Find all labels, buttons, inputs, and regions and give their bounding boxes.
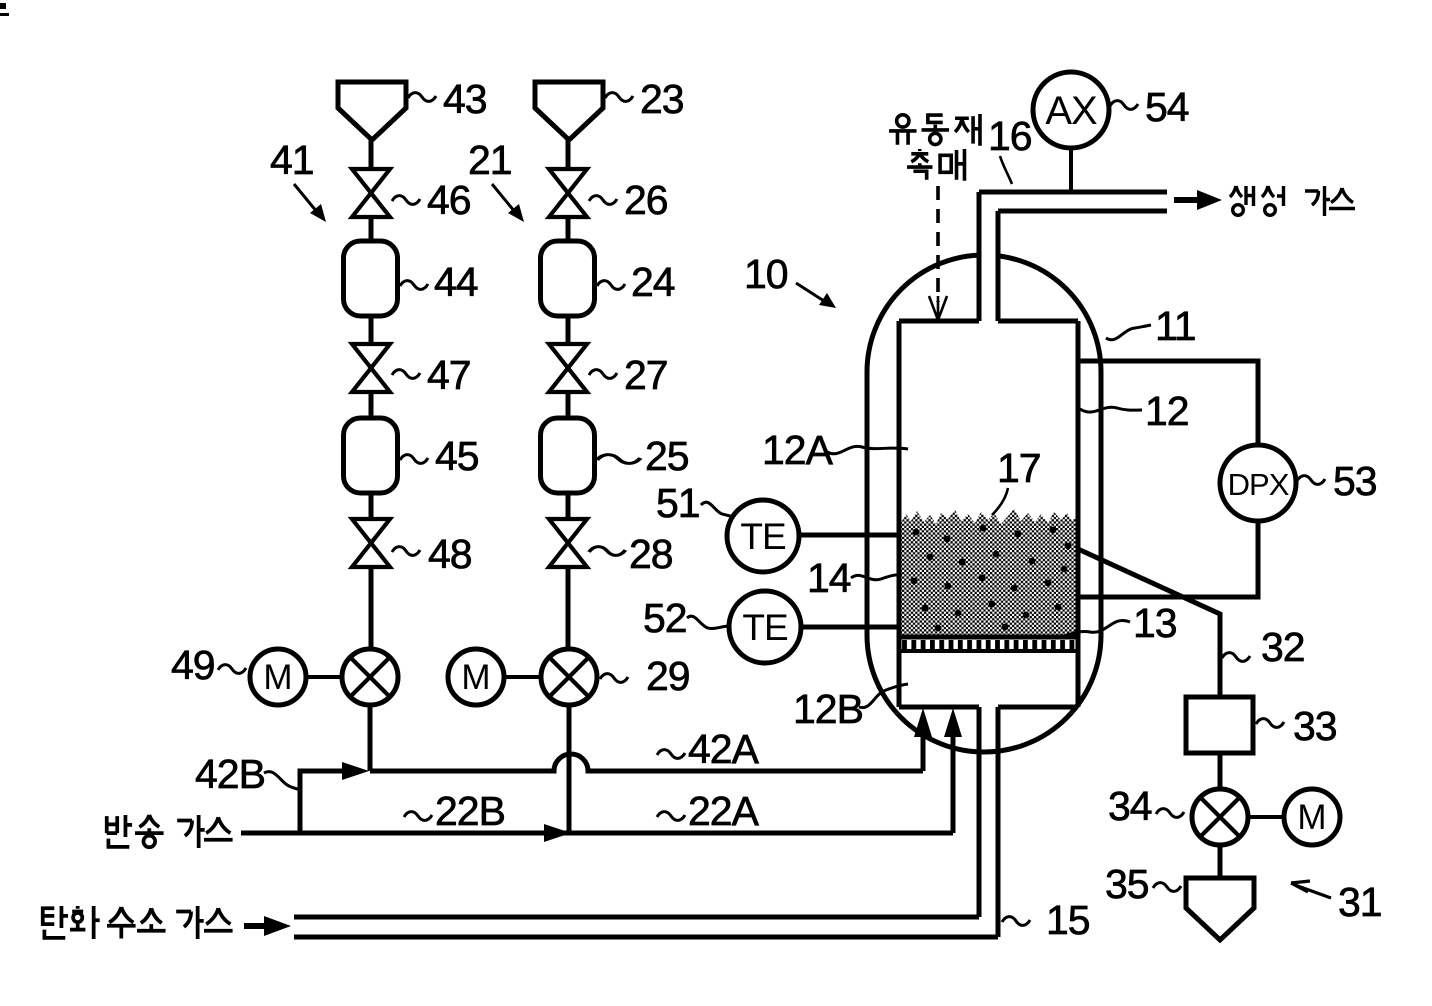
label 27 <box>589 370 617 379</box>
wire motorvalve29 down <box>567 705 572 833</box>
wire hopper43-valve46 <box>369 140 374 170</box>
label 42A <box>657 750 685 759</box>
inner tube bottom edge 12B with pipe-15 opening <box>899 705 1078 710</box>
label 31 with arrow <box>1291 881 1331 898</box>
svg-text:53: 53 <box>1333 458 1377 504</box>
svg-text:47: 47 <box>427 352 471 398</box>
distributor bottom line <box>899 649 1078 653</box>
wire vessel24-valve27 <box>566 316 571 345</box>
svg-text:33: 33 <box>1293 703 1337 749</box>
M-valve34 link <box>1248 815 1284 819</box>
svg-text:M: M <box>263 658 292 697</box>
svg-text:51: 51 <box>656 480 700 526</box>
catalyst particles 17 dots <box>911 525 1072 632</box>
label 12 <box>1080 407 1142 412</box>
product gas line bottom <box>998 209 1167 214</box>
line 22A riser into vessel <box>951 730 956 833</box>
buffer vessel 44 <box>344 241 398 316</box>
label 33 <box>1256 719 1284 728</box>
M-valve link col2 <box>504 675 541 679</box>
analyzer AX stem <box>1069 148 1073 190</box>
korean text: return gas (반송 가스) <box>107 815 132 847</box>
label 32 <box>1222 653 1250 662</box>
page corner artifact <box>0 3 9 16</box>
svg-text:52: 52 <box>643 595 687 641</box>
inner reactor tube 12 right wall <box>1076 321 1081 707</box>
motor valve 29 circle <box>541 649 597 705</box>
label 46 <box>392 196 420 205</box>
svg-text:35: 35 <box>1105 861 1149 907</box>
svg-text:DPX: DPX <box>1228 467 1290 502</box>
svg-text:22B: 22B <box>435 788 505 834</box>
svg-text:TE: TE <box>740 516 786 557</box>
DPX upper tap line <box>1078 361 1258 445</box>
gas distributor plate 13 comb <box>901 640 1077 649</box>
hopper 43 <box>338 82 406 140</box>
svg-text:41: 41 <box>270 137 314 183</box>
catalyst bed 14 stipple fill <box>901 509 1076 636</box>
pipe 16 white occluder over dome <box>982 235 996 280</box>
svg-text:22A: 22A <box>688 788 760 834</box>
svg-text:46: 46 <box>427 177 471 223</box>
hydrocarbon gas feed arrow <box>244 923 266 929</box>
svg-text:M: M <box>461 658 490 697</box>
bed bottom line <box>899 635 1078 640</box>
motor valve 34 <box>1192 789 1248 845</box>
motor M for valve34 <box>1284 789 1340 845</box>
svg-text:34: 34 <box>1108 783 1152 829</box>
line 42A riser into vessel <box>921 730 926 771</box>
wire vessel44-valve47 <box>369 316 374 345</box>
wire valve27-vessel25 <box>566 392 571 420</box>
svg-text:16: 16 <box>988 113 1032 159</box>
motor M 49 circle <box>250 649 306 705</box>
DPX lower tap line <box>1078 521 1258 597</box>
svg-text:13: 13 <box>1133 600 1177 646</box>
svg-text:24: 24 <box>631 259 675 305</box>
arrow 22A up <box>944 708 962 737</box>
TE 51 probe line <box>799 533 899 538</box>
inner reactor tube 12 left wall <box>897 321 902 707</box>
label 29 <box>600 674 628 683</box>
svg-text:43: 43 <box>443 76 487 122</box>
label 15 <box>1002 917 1030 926</box>
svg-text:12B: 12B <box>793 686 863 732</box>
label 53 <box>1297 476 1325 485</box>
svg-text:27: 27 <box>624 352 668 398</box>
label 22A <box>657 812 685 821</box>
svg-text:42B: 42B <box>195 751 265 797</box>
wire valve28-motorvalve29 <box>566 567 571 650</box>
pipe 16 riser left wall <box>977 192 982 321</box>
valve 26 <box>549 169 587 217</box>
product gas line top <box>979 190 1167 195</box>
svg-text:44: 44 <box>434 259 478 305</box>
svg-text:31: 31 <box>1338 879 1382 925</box>
svg-text:26: 26 <box>624 177 668 223</box>
svg-text:12: 12 <box>1145 388 1189 434</box>
hydrocarbon gas pipe 15 bottom line <box>294 707 998 937</box>
label 54 <box>1110 101 1138 110</box>
valve 47 <box>352 344 390 392</box>
label 11 <box>1106 325 1151 340</box>
svg-text:49: 49 <box>171 642 215 688</box>
catalyst drain diagonal 32 <box>1078 549 1220 697</box>
label 28 <box>589 547 625 556</box>
wire vessel25-valve28 <box>566 493 571 520</box>
label 47 <box>392 370 420 379</box>
buffer vessel 25 <box>541 418 595 493</box>
svg-text:11: 11 <box>1155 303 1196 349</box>
buffer vessel 24 <box>541 241 595 316</box>
wire valve47-vessel45 <box>369 392 374 420</box>
reactor outer vessel 11 <box>867 255 1101 752</box>
return gas line 22B/22A <box>241 831 953 836</box>
valve 28 <box>549 519 587 567</box>
line 42A with hop over col2 wire <box>370 754 923 771</box>
M-valve link col1 <box>306 675 342 679</box>
motor M col2 circle <box>448 649 504 705</box>
valve 27 <box>549 344 587 392</box>
wire valve34-hopper35 <box>1218 845 1223 878</box>
DPX 53 circle <box>1220 445 1296 521</box>
motor valve circle col1 <box>342 649 398 705</box>
analyzer AX 54 circle <box>1033 72 1109 148</box>
svg-text:14: 14 <box>807 555 851 601</box>
svg-text:17: 17 <box>997 445 1041 491</box>
korean text: product gas (생성 가스) <box>1230 186 1254 215</box>
svg-text:48: 48 <box>428 531 472 577</box>
cooler box 33 <box>1186 697 1253 753</box>
line 42B riser and horizontal run <box>300 771 342 833</box>
product gas arrow <box>1174 197 1199 203</box>
arrow 42A up <box>914 708 932 737</box>
svg-text:45: 45 <box>435 433 479 479</box>
svg-text:M: M <box>1297 798 1326 837</box>
svg-text:12A: 12A <box>762 427 834 473</box>
svg-text:29: 29 <box>646 653 690 699</box>
korean text: hydrocarbon gas (탄화 수소 가스) <box>43 906 68 938</box>
svg-text:32: 32 <box>1261 624 1305 670</box>
label 44 <box>400 281 428 290</box>
svg-text:54: 54 <box>1145 84 1189 130</box>
label 45 <box>400 455 428 464</box>
arrow on 22B <box>544 824 571 842</box>
hopper 23 <box>535 82 603 140</box>
arrow on 42B <box>342 762 369 780</box>
svg-text:10: 10 <box>744 251 788 297</box>
wire box33-valve34 <box>1218 753 1223 789</box>
collection hopper 35 <box>1186 878 1254 940</box>
wire vessel45-valve48 <box>369 493 374 520</box>
wire hopper23-valve26 <box>566 140 571 170</box>
svg-text:28: 28 <box>629 531 673 577</box>
svg-text:25: 25 <box>645 433 689 479</box>
label 13 <box>1049 621 1130 638</box>
pipe 16 riser right wall <box>996 211 1001 321</box>
label 43 <box>408 93 436 102</box>
wire valve26-vessel24 <box>566 217 571 243</box>
buffer vessel 45 <box>344 418 398 493</box>
TE sensor 51 circle <box>727 500 799 572</box>
inner tube top edge with pipe-16 opening <box>899 319 1078 324</box>
hydrocarbon gas pipe 15 top line <box>294 707 979 917</box>
catalyst feed dashed arrow <box>936 186 940 302</box>
wire motorvalve col1 down <box>368 705 373 771</box>
svg-text:42A: 42A <box>688 726 760 772</box>
label 48 <box>392 547 420 556</box>
wire valve46-vessel44 <box>369 217 374 243</box>
TE 52 probe line <box>801 625 899 630</box>
korean text: fluidizing-material catalyst (유동재 촉매) <box>889 115 917 145</box>
wire valve48-motorvalve <box>369 567 374 650</box>
svg-text:21: 21 <box>468 137 512 183</box>
svg-text:AX: AX <box>1045 89 1097 133</box>
svg-text:15: 15 <box>1046 897 1090 943</box>
valve 48 <box>352 519 390 567</box>
svg-text:23: 23 <box>640 76 684 122</box>
label 24 <box>597 281 625 290</box>
label 23 <box>605 93 633 102</box>
valve 46 <box>352 169 390 217</box>
label 25 <box>597 455 640 464</box>
label 22B <box>404 812 432 821</box>
TE sensor 52 circle <box>729 591 801 663</box>
label 26 <box>589 196 617 205</box>
svg-text:TE: TE <box>742 607 788 648</box>
